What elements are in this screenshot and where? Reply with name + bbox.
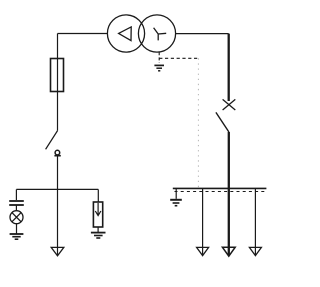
wire: dashed neutral link horizontal: [159, 57, 198, 59]
wire: neutral dashed drop from winding: [158, 52, 160, 63]
wire: busbar to ground tick: [175, 188, 177, 198]
surge arrester FV1: [93, 202, 102, 227]
transformer T1 primary winding (delta): [107, 15, 144, 52]
feeder arrow: feeder 3: [249, 247, 261, 255]
fuse F1: [51, 59, 64, 92]
breaker Q1 (X contact mark): [223, 99, 236, 110]
ground: below arrester: [91, 233, 106, 238]
switch S1 fixed contact: [54, 150, 60, 155]
capacitor C1 (voltage indicator coupling): [9, 201, 24, 205]
wire: thick main feeder vertical (lower) to busbar and feeder: [228, 132, 230, 255]
wire: thick main feeder vertical (upper): [228, 34, 230, 101]
feeder arrow: bottom-left outgoing feeder: [51, 247, 64, 255]
wire: feeder 1 drop: [202, 188, 204, 255]
wire: drop to surge arrester: [97, 189, 99, 202]
feeder arrow: feeder 1: [197, 247, 209, 255]
ground: busbar earth: [170, 200, 182, 206]
wire: HV lead from left winding to fuse drop: [58, 33, 108, 35]
wire: arrester to ground: [97, 227, 99, 232]
transformer T1 secondary winding (wye): [138, 15, 175, 52]
wire: dotted neutral link vertical to busbar: [197, 58, 199, 188]
busbar earth reference (dashed): [175, 191, 266, 193]
wire: vertical from switch to bottom feeder: [57, 156, 59, 255]
wire: feeder 3 drop: [254, 188, 256, 255]
wire: LV lead from wye winding to main breaker drop: [176, 33, 229, 35]
wire: drop to capacitor divider: [15, 189, 17, 200]
switch S1 blade (open disconnect): [46, 131, 58, 150]
switch Q1 blade (open): [216, 112, 229, 132]
wire: bottom-left horizontal branch: [16, 188, 98, 190]
busbar (solid): [173, 187, 267, 189]
ground: below lamp: [10, 234, 24, 239]
wire: capacitor to lamp: [15, 205, 17, 211]
feeder arrow: main thick feeder: [222, 247, 235, 256]
wire: left vertical drop through fuse to switch: [57, 34, 59, 131]
ground: transformer neutral earth: [154, 65, 164, 70]
lamp H1 (voltage presence indicator): [10, 211, 23, 224]
wire: lamp to ground: [16, 224, 18, 234]
